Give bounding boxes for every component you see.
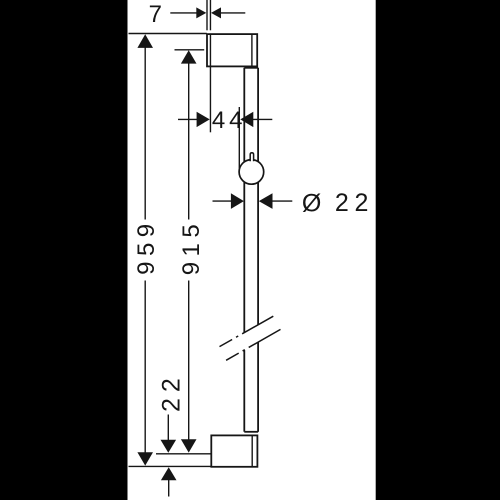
wire: 44-dim extension line below bracket x=210.45 [209, 66, 211, 132]
arrow: 44-dim left (points right) tip at 209.7,119.4 [197, 112, 210, 127]
white drawing band [128, 0, 376, 500]
wire: diameter-22 dim line right part [272, 200, 292, 202]
svg-text:959: 959 [133, 218, 160, 275]
wire: 959 top reference line y=33.5 [129, 33, 207, 35]
bottom end cap outer rectangle [211, 435, 257, 466]
wire: 915/22 bottom reference line y=453.8 [156, 453, 211, 455]
arrow: 22-dim lower (points up) tip at 168.7,467.2 [161, 467, 177, 480]
wire: shower bar left edge lower segment [243, 350, 245, 432]
arrow: 915 bottom (points down) tip at 188.7,452.6 [181, 439, 197, 452]
wire: shower bar right edge lower segment [257, 342, 259, 431]
arrow: 22-dim upper (points down) tip at 168.3,452.8 [161, 440, 177, 453]
arrow: 915 top (points up) tip at 188.7,50.3 [181, 50, 197, 63]
wire: 915 top reference line y=49.8 [175, 49, 205, 51]
wire: 7-dim line right part [221, 12, 246, 14]
wire: 7-dim right extension line x=210.45 [209, 0, 211, 30]
arrow: diameter-22 left (points right) tip at 243.9,201.1 [231, 193, 244, 209]
wire: shower bar left edge upper segment x=244.3 [243, 68, 245, 333]
wire: 22-dim upper arrow stem [167, 415, 169, 441]
break symbol upper diagonal (dash-dot) [220, 316, 274, 346]
wire: 959 dimension line upper segment x=145.2 [144, 48, 146, 220]
wire: diameter-22 dim line left part [213, 200, 232, 202]
wall bracket inner left line [209, 34, 211, 66]
wire: bar top end line under bracket y=67.8 [244, 67, 258, 69]
wire: 7-dim line left part [170, 12, 196, 14]
wire: 7-dim left extension line x=207 [206, 0, 208, 30]
arrow: 959 bottom (points down) tip at 145.2,465.6 [137, 452, 153, 465]
wire: shower bar right edge upper segment x=258.1 [257, 68, 259, 325]
svg-text:22: 22 [157, 372, 185, 412]
svg-text:22: 22 [335, 189, 374, 217]
arrow: diameter-22 right (points left) tip at 258.8,201.1 [259, 193, 273, 209]
wire: bar bottom end line above cap y=431.8 [244, 431, 258, 433]
arrow: 959 top (points up) tip at 145.2,34.3 [137, 34, 153, 48]
wall bracket inner right line [251, 34, 253, 66]
wire: 959 dimension line lower segment [144, 281, 146, 453]
wire: 44-dim extension line at holder x=239.3 [238, 107, 240, 169]
slider holder circle [239, 160, 264, 185]
svg-text:44: 44 [212, 107, 247, 134]
wire: 915 dimension line lower segment [188, 281, 190, 440]
wire: 22-dim lower arrow stem [168, 480, 170, 497]
slider nub on top of circle [250, 153, 253, 161]
arrow: 44-dim right (points left) tip at 240.3,119.4 [240, 112, 253, 127]
arrow: 7-dim right (points left) tip at 211,12.9 [211, 7, 221, 18]
bottom end cap inner line [251, 435, 253, 466]
svg-text:Ø: Ø [302, 189, 321, 217]
wire: 915 dimension line upper segment x=188.7 [188, 63, 190, 219]
wire: 44-dim line left part [178, 118, 197, 120]
svg-text:915: 915 [178, 219, 205, 276]
arrow: 7-dim left (points right) tip at 206.3,12.9 [196, 7, 206, 18]
wire: 959 bottom reference line y=466.4 [129, 465, 212, 467]
wall bracket outer rectangle [207, 34, 257, 66]
break symbol lower diagonal (dash-dot) [226, 329, 280, 360]
wire: 44-dim line right part [253, 118, 272, 120]
svg-text:7: 7 [149, 1, 162, 28]
